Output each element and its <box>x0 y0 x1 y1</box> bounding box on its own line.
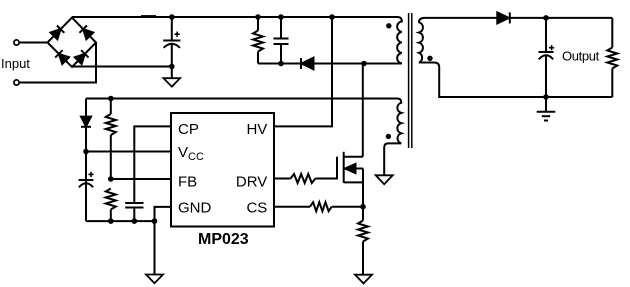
ground aux winding <box>376 175 393 184</box>
bridge diode D4 (bottom-right) <box>74 50 88 64</box>
resistor R1 snubber <box>257 17 259 31</box>
node output cap bottom <box>543 94 549 100</box>
diode D7 output <box>497 12 509 23</box>
node output cap top <box>543 15 549 21</box>
bridge diamond wires <box>48 18 97 68</box>
node source/CS <box>360 204 366 210</box>
transformer core <box>408 13 410 148</box>
resistor R3 divider bottom <box>106 189 116 210</box>
resistor R2 divider top <box>110 99 112 115</box>
wire load right <box>611 18 613 48</box>
wire rail to ground <box>154 221 156 274</box>
ground under C1 <box>171 67 173 79</box>
plus C5 <box>549 45 554 50</box>
node rail R3 <box>108 218 114 224</box>
wire secondary top <box>425 17 498 19</box>
svg-text:CS: CS <box>246 200 267 217</box>
bridge diode D1 (top-left) <box>50 26 64 40</box>
input terminal top <box>14 40 19 45</box>
transistor Q1 MOSFET <box>336 157 338 180</box>
node drain/primary <box>361 61 367 67</box>
wire HV top rail <box>72 16 398 18</box>
op-amp U1 MP023 box <box>171 113 274 227</box>
earth ground output <box>545 97 547 112</box>
phase dot primary <box>386 23 391 28</box>
svg-text:CP: CP <box>178 121 199 138</box>
capacitor C4 vcc (polarized) <box>85 152 87 181</box>
svg-text:FB: FB <box>178 174 197 191</box>
wire vcc to IC <box>86 151 171 153</box>
node snubber C bottom <box>278 61 284 67</box>
svg-text:MP023: MP023 <box>198 231 249 248</box>
node C1 top <box>169 14 175 20</box>
wire source <box>362 169 364 207</box>
ground sense <box>355 275 372 284</box>
resistor R7 load <box>607 48 617 69</box>
node HV rail <box>329 14 335 20</box>
svg-text:HV: HV <box>246 121 267 138</box>
wire snubber bottom <box>258 63 300 65</box>
resistor R6 sense <box>362 207 364 221</box>
wire GND pin <box>155 207 172 221</box>
capacitor C3 CP <box>125 202 143 204</box>
node FB <box>108 176 114 182</box>
capacitor C2 snubber <box>280 17 282 39</box>
transformer T1 aux winding <box>397 99 402 144</box>
diode D5 snubber <box>300 58 302 69</box>
svg-text:DRV: DRV <box>236 174 267 191</box>
capacitor C1 bulk input <box>171 17 173 41</box>
resistor R5 CS <box>274 206 310 208</box>
wire aux top rail <box>86 98 398 100</box>
wire aux bottom rail <box>86 220 155 222</box>
node rail C3 <box>132 218 138 224</box>
node vcc <box>83 149 89 155</box>
node snubber R top <box>255 14 261 20</box>
wire input top to bridge left <box>19 42 47 44</box>
wire input bottom to bridge right <box>19 43 96 83</box>
bridge diode D3 (bottom-left) <box>55 50 69 64</box>
svg-text:Output: Output <box>562 48 600 63</box>
svg-text:GND: GND <box>178 200 212 217</box>
node rail GND <box>152 218 158 224</box>
resistor R4 gate (DRV) <box>274 178 291 180</box>
diode D6 vcc <box>81 117 91 127</box>
wire HV pin <box>274 17 332 126</box>
wire bridge negative to ground node <box>72 66 172 68</box>
bridge diode D2 (top-right) <box>79 26 93 40</box>
node snubber C top <box>278 14 284 20</box>
phase dot aux <box>386 134 391 139</box>
wire drain <box>362 64 364 157</box>
plus C4 <box>88 172 93 177</box>
node divider top <box>108 96 114 102</box>
plus C1 <box>175 32 180 37</box>
wire aux bottom to ground <box>384 143 396 175</box>
node C1 bottom <box>169 64 175 70</box>
phase dot secondary <box>427 56 432 61</box>
capacitor C5 output <box>545 18 547 52</box>
svg-text:Input: Input <box>1 56 30 71</box>
input terminal bottom <box>14 80 19 85</box>
ground aux circuit <box>146 275 163 284</box>
wire aux left branch <box>85 99 87 222</box>
transformer T1 secondary winding <box>419 18 425 63</box>
wire secondary bottom <box>425 63 613 98</box>
wire CP to cap <box>134 126 171 203</box>
transformer T1 primary winding <box>397 17 402 64</box>
wire FB to IC <box>111 178 171 180</box>
